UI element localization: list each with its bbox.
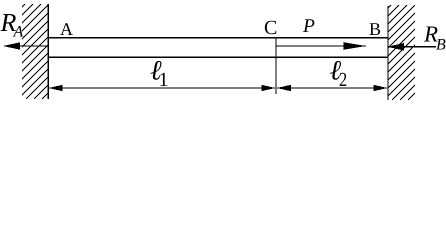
left wall hatching (0, 4, 137, 99)
svg-text:C: C (264, 17, 277, 39)
right wall edge line (387, 6, 389, 100)
right wall hatching (288, 5, 446, 100)
dimension line l2 with arrowheads (277, 85, 387, 91)
dimension line l1 with arrowheads (49, 85, 276, 91)
reaction arrow RA (3, 42, 48, 49)
svg-text:2: 2 (339, 69, 347, 91)
reaction arrow RB (388, 43, 437, 51)
svg-text:A: A (60, 19, 73, 39)
bar bottom edge (48, 56, 388, 58)
svg-text:B: B (436, 37, 446, 54)
svg-text:1: 1 (159, 69, 169, 91)
bar top edge (48, 37, 388, 39)
left wall edge line (47, 4, 49, 99)
force arrow P (276, 42, 366, 50)
svg-text:A: A (13, 24, 24, 41)
svg-text:B: B (369, 19, 381, 39)
node C extension line (275, 38, 277, 94)
svg-text:P: P (302, 16, 315, 37)
